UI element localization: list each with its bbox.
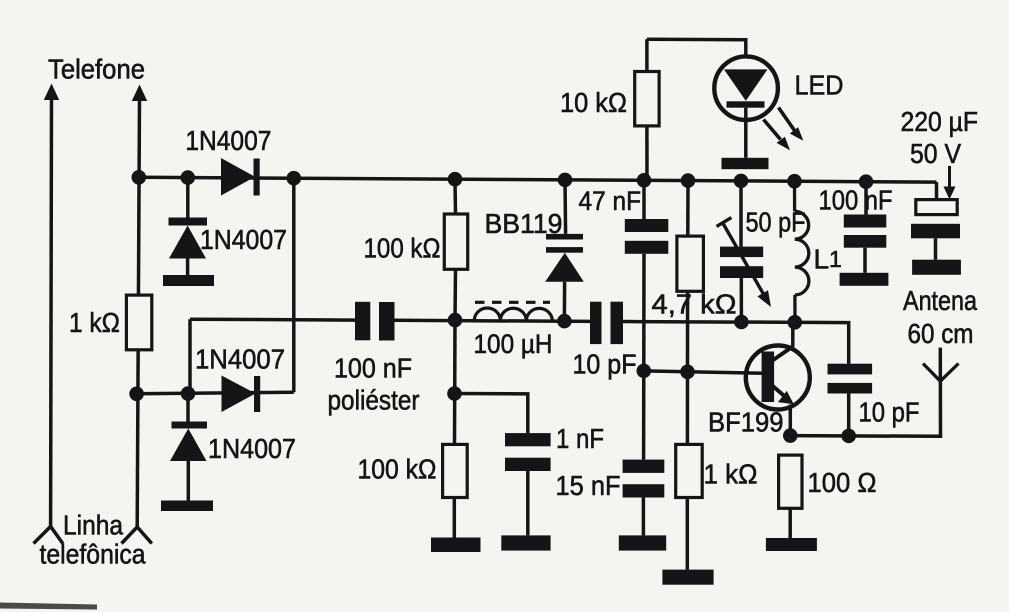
svg-text:Linha: Linha <box>63 510 123 541</box>
node base-4k7 <box>680 365 695 380</box>
wire mid rail left segment <box>190 317 356 321</box>
wire collector rail y322 <box>741 322 848 364</box>
ground C9 <box>912 260 961 275</box>
node rail-D2 <box>181 170 196 185</box>
wire top loop to LED <box>647 39 746 57</box>
node arrow line B top <box>132 85 147 102</box>
resistor R1 1 kOhm (phone line) <box>126 295 151 350</box>
svg-text:LED: LED <box>795 70 844 101</box>
svg-text:4,7 kΩ: 4,7 kΩ <box>652 289 737 320</box>
resistor R6 10 kOhm <box>635 39 659 180</box>
wire C2 to ground <box>526 471 530 535</box>
scan artifact bar bottom left <box>0 603 97 610</box>
svg-text:10 kΩ: 10 kΩ <box>560 87 627 118</box>
node y322-L1-collector <box>788 315 803 330</box>
node arrow line A top <box>44 84 59 101</box>
ground C2 <box>501 535 550 550</box>
node lowrail-lineB <box>129 387 144 402</box>
node BB119-L2 <box>557 314 572 329</box>
svg-text:telefônica: telefônica <box>40 539 146 570</box>
varicap D5 BB119 <box>545 180 584 321</box>
resistor R4 4,7 kOhm <box>677 181 704 445</box>
svg-text:BB119: BB119 <box>485 208 563 239</box>
svg-text:BF199: BF199 <box>708 407 784 438</box>
node lowrail-D4 <box>181 386 196 401</box>
svg-text:60 cm: 60 cm <box>908 318 974 349</box>
wire base of Q1 <box>644 371 764 373</box>
diode D4 1N4007 lower vertical <box>161 394 213 511</box>
svg-text:100 nF: 100 nF <box>334 353 412 384</box>
svg-text:Telefone: Telefone <box>48 54 145 85</box>
ground R5 <box>662 570 713 585</box>
svg-text:100 Ω: 100 Ω <box>808 467 877 498</box>
capacitor C2 1 nF <box>505 433 551 471</box>
wire phone line B (right conductor) <box>137 98 139 527</box>
capacitor C9 220 uF electrolytic <box>911 182 960 260</box>
wire phone line A (left conductor) <box>49 97 53 527</box>
node emitter-10pF <box>841 429 856 444</box>
LED D6 <box>714 56 778 169</box>
capacitor C1 100 nF polyester <box>355 302 395 341</box>
node rail-47nF <box>637 173 652 188</box>
svg-text:1 kΩ: 1 kΩ <box>69 307 120 338</box>
wire mid rail segment 3 <box>623 320 742 324</box>
svg-text:100 kΩ: 100 kΩ <box>364 233 441 264</box>
LED arrows <box>764 108 804 151</box>
capacitor C4 47 nF <box>625 180 669 459</box>
resistor R2 100 kOhm upper <box>444 179 467 320</box>
svg-text:47 nF: 47 nF <box>579 186 642 216</box>
node rail-100nF <box>859 174 874 189</box>
diode D2 1N4007 upper vertical <box>163 178 214 286</box>
capacitor C8 100 nF right <box>844 182 887 273</box>
svg-text:Antena: Antena <box>903 285 977 316</box>
svg-text:50 pF: 50 pF <box>746 207 806 238</box>
svg-text:1N4007: 1N4007 <box>200 224 287 255</box>
trimmer C6 50 pF <box>717 181 771 322</box>
wire mid rail tap down <box>188 319 192 393</box>
node fork line B <box>122 527 152 544</box>
inductor L2 100 uH <box>474 302 552 321</box>
svg-text:10 pF: 10 pF <box>859 397 920 428</box>
node rail-BB119 <box>558 173 573 188</box>
wire to 1 nF <box>455 394 528 434</box>
resistor R5 1 kOhm <box>676 444 703 569</box>
node base-47nF <box>637 364 652 379</box>
diode D3 1N4007 lower horizontal <box>222 376 261 413</box>
transistor Q1 BF199 <box>746 322 810 435</box>
wire mid rail segment 2 <box>395 320 591 321</box>
antenna <box>923 364 959 382</box>
node y322-trimmer <box>734 315 749 330</box>
svg-text:poliéster: poliéster <box>328 385 420 416</box>
svg-text:1 nF: 1 nF <box>556 423 604 454</box>
wire lower bridge rail <box>137 392 294 394</box>
node rail-lineB <box>132 170 147 185</box>
svg-text:1N4007: 1N4007 <box>185 125 271 156</box>
svg-text:10 pF: 10 pF <box>573 349 637 380</box>
diode D1 1N4007 top horizontal <box>221 158 260 196</box>
svg-text:1N4007: 1N4007 <box>208 433 296 464</box>
node x455-y393 <box>447 386 462 401</box>
wire x455 down to lower junction <box>453 320 457 444</box>
node fork line A <box>34 527 63 544</box>
ground C8 <box>840 273 889 286</box>
node rail-trimmer <box>734 174 749 189</box>
svg-text:50 V: 50 V <box>910 138 961 169</box>
resistor R3 100 kOhm lower <box>443 444 468 538</box>
wire emitter to antenna <box>790 348 940 437</box>
node arrow 50V pointer <box>944 166 956 200</box>
node rail-bridge-right <box>287 171 302 186</box>
node midrail-R2 <box>448 313 463 328</box>
svg-text:100 nF: 100 nF <box>819 185 893 216</box>
ground R3 <box>431 538 481 553</box>
capacitor C5 15 nF <box>623 460 665 536</box>
svg-text:1: 1 <box>829 246 842 272</box>
svg-text:100 µH: 100 µH <box>474 329 553 359</box>
capacitor C3 10 pF left <box>590 302 623 344</box>
node emitter <box>783 428 798 443</box>
svg-text:1 kΩ: 1 kΩ <box>704 459 758 490</box>
wire bridge right vertical <box>292 178 296 392</box>
svg-text:L: L <box>814 244 830 275</box>
ground R7 <box>766 538 817 551</box>
ground C5 <box>619 535 666 550</box>
resistor R7 100 Ohm <box>779 455 802 538</box>
svg-text:100 kΩ: 100 kΩ <box>358 454 437 485</box>
capacitor C7 10 pF right <box>828 364 873 436</box>
svg-text:15 nF: 15 nF <box>556 470 621 501</box>
wire top rail <box>139 177 937 182</box>
inductor L1 <box>795 181 809 322</box>
svg-text:220 µF: 220 µF <box>901 106 979 137</box>
svg-text:1N4007: 1N4007 <box>195 344 285 375</box>
node rail-L1 <box>787 174 802 189</box>
node rail-4k7 <box>681 173 696 188</box>
node rail-R2 <box>448 172 463 187</box>
